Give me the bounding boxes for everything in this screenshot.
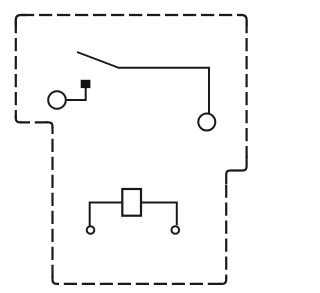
relay coil rectangle — [122, 189, 141, 216]
wire from common terminal to contact post — [66, 88, 86, 100]
switch common terminal circle — [48, 91, 66, 109]
enclosure right edge lower (dashed) — [225, 185, 227, 279]
switch lever (open blade) — [77, 52, 118, 68]
enclosure bottom-right corner — [219, 277, 226, 284]
enclosure left step corner right — [45, 122, 53, 128]
enclosure right edge upper (dashed) — [246, 20, 248, 158]
enclosure left step horizontal (dashed) — [20, 121, 48, 123]
enclosure left edge upper (dashed) — [15, 20, 17, 118]
coil left wire — [90, 203, 123, 226]
enclosure bottom edge (dashed) — [58, 283, 221, 285]
coil right terminal circle — [172, 226, 180, 234]
coil left terminal circle — [87, 226, 95, 234]
enclosure left step corner left — [16, 115, 22, 122]
enclosure right step (solid) — [226, 156, 246, 184]
enclosure top edge (dashed) — [21, 14, 241, 16]
enclosure bottom-left corner — [53, 276, 60, 284]
wire from lever to NO terminal — [118, 68, 210, 114]
fixed contact (filled square) — [81, 80, 91, 88]
coil right wire — [141, 203, 177, 226]
enclosure top-right corner — [240, 15, 247, 26]
enclosure top-left corner — [16, 15, 27, 26]
enclosure left edge lower (dashed) — [51, 127, 53, 278]
NO terminal circle — [198, 114, 215, 131]
